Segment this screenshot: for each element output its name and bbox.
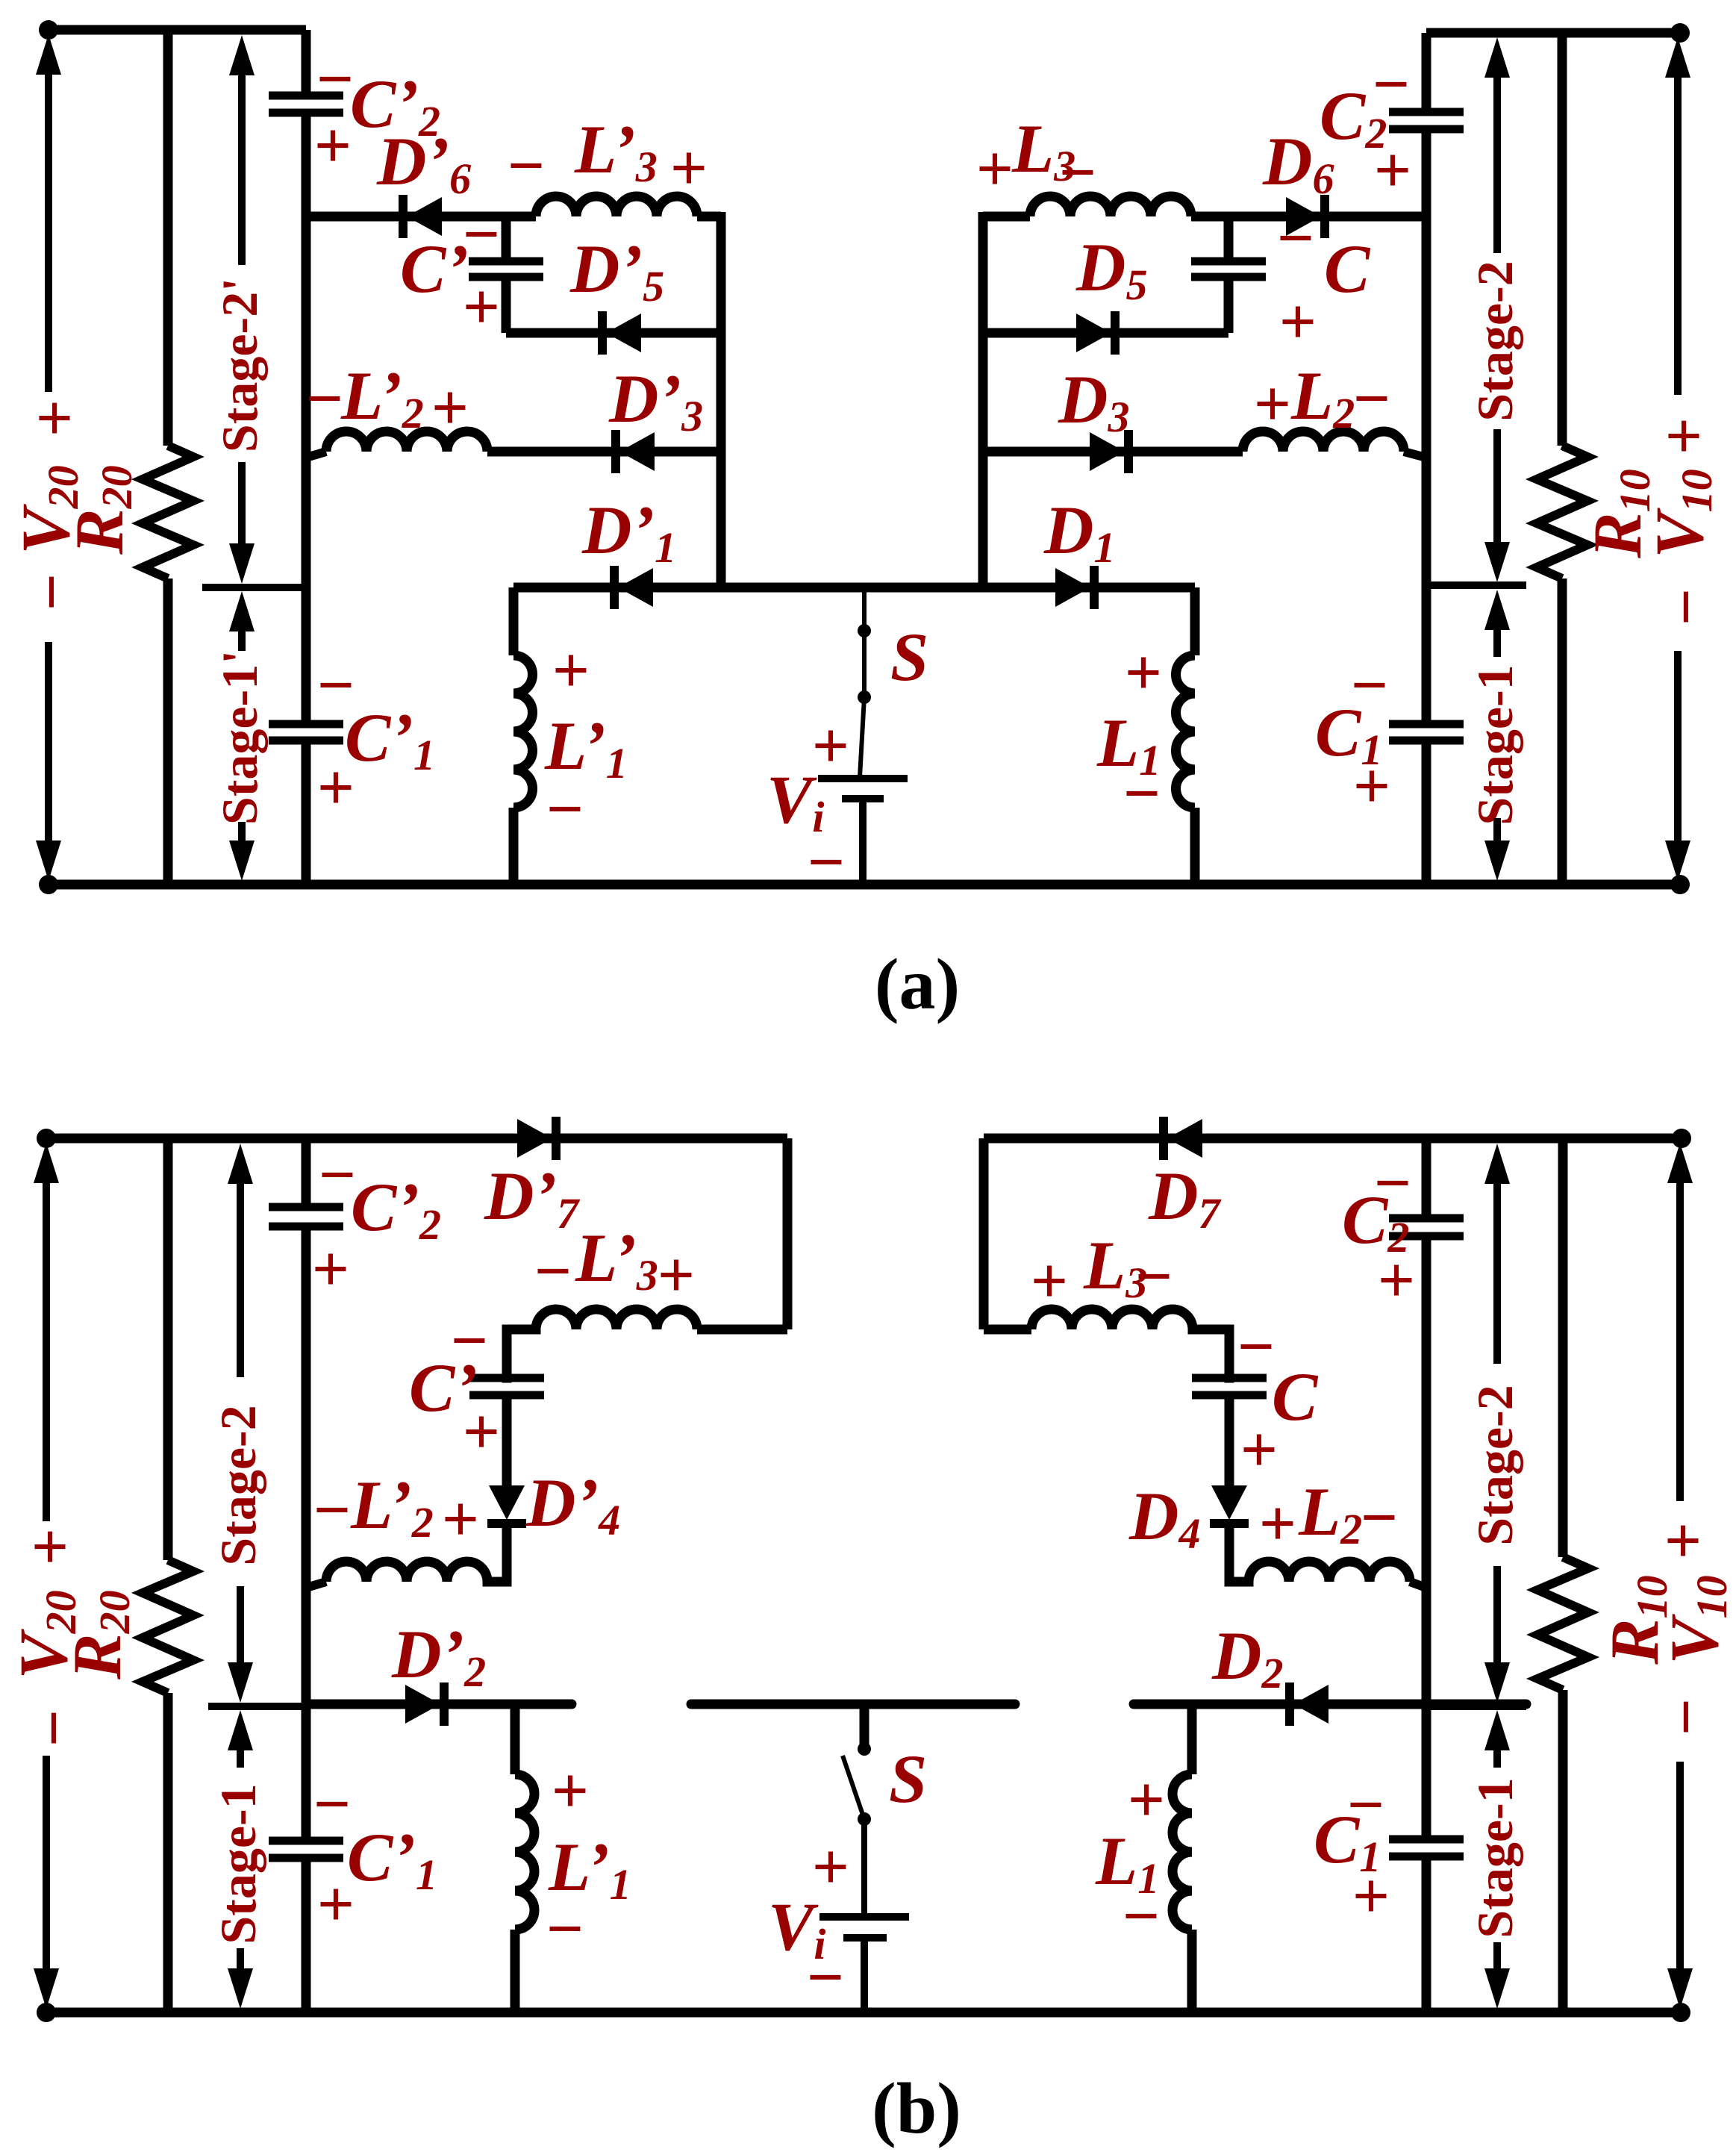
svg-text:+: + xyxy=(552,1755,589,1827)
svg-text:Stage-2: Stage-2 xyxy=(1467,1385,1523,1545)
svg-text:+: + xyxy=(552,634,590,707)
inductor L'1 (b) xyxy=(515,1704,534,2012)
svg-text:S: S xyxy=(889,1741,927,1817)
svg-text:−: − xyxy=(313,1768,351,1841)
capacitor C'1 (a) xyxy=(269,724,343,740)
tick stage boundary right (b) xyxy=(1426,1703,1526,1710)
dimension arrow Stage-1 right head bottom (b) xyxy=(1484,1968,1510,2009)
dimension arrow Stage-1 right shaft upper (b) xyxy=(1493,1749,1501,1768)
diode D'5 (a) xyxy=(602,311,641,355)
dimension arrow Stage-1' shaft upper (a) xyxy=(238,630,246,651)
diode D'4 (b) xyxy=(487,1485,526,1524)
svg-text:−: − xyxy=(306,363,343,435)
inductor L2 (a) xyxy=(1243,431,1404,452)
svg-text:+: + xyxy=(317,1868,355,1941)
svg-text:+: + xyxy=(312,1233,349,1306)
wire right output rail R10 top (b) xyxy=(1558,1138,1568,1557)
svg-text:−: − xyxy=(546,1893,584,1965)
dimension arrow Stage-2 right shaft lower (b) xyxy=(1493,1566,1501,1668)
svg-text:C: C xyxy=(1272,1359,1319,1435)
svg-text:+: + xyxy=(463,1396,500,1468)
svg-text:Stage-1: Stage-1 xyxy=(1467,664,1523,825)
wire right rail middle (a) xyxy=(1422,129,1431,724)
wire D4 to L2 (b) xyxy=(1229,1527,1249,1582)
label Stage-2 (a) xyxy=(1467,261,1523,421)
dimension arrow Stage-2 right shaft upper (b) xyxy=(1493,1181,1501,1364)
svg-text:+: + xyxy=(431,372,469,444)
tick stage boundary left (b) xyxy=(208,1703,306,1710)
svg-text:+: + xyxy=(1374,134,1411,207)
svg-text:+: + xyxy=(442,1483,479,1556)
svg-text:+: + xyxy=(1648,417,1720,455)
label Stage-2' (a) xyxy=(211,278,268,452)
svg-text:−: − xyxy=(18,1709,90,1747)
dimension arrow Stage-1 shaft upper (a) xyxy=(1493,629,1501,657)
wire left rail lower (b) xyxy=(302,1858,311,2012)
dimension arrow Stage-2 head top (a) xyxy=(1484,37,1510,78)
capacitor C' (b) xyxy=(469,1378,544,1395)
wire D3 row (a) xyxy=(983,447,1243,457)
wire inner right rail (a) xyxy=(978,212,988,587)
node bottom-left (b) xyxy=(37,2003,56,2022)
wire L'3 to rail (a) xyxy=(697,212,721,222)
wire left output rail R20 bottom (b) xyxy=(163,1693,173,2012)
resistor R20 (a) xyxy=(143,446,193,578)
svg-text:S: S xyxy=(890,619,928,695)
label Stage-1 right (b) xyxy=(1467,1777,1523,1938)
wire top rail left (b) xyxy=(46,1134,787,1144)
dimension arrow Stage-2 left head bottom (b) xyxy=(228,1662,253,1703)
dimension arrow Stage-1 left shaft upper (b) xyxy=(237,1749,244,1768)
dimension arrow Stage-2' shaft lower (a) xyxy=(238,462,246,546)
wire L2 lead (b) xyxy=(1410,1582,1426,1588)
wire L'3 riser (b) xyxy=(783,1138,793,1329)
dimension arrow Stage-2 shaft lower (a) xyxy=(1493,429,1501,546)
svg-text:+: + xyxy=(812,1831,849,1903)
battery Vi (b) xyxy=(819,1917,909,2012)
wire left rail middle (b) xyxy=(302,1226,311,1841)
svg-text:+: + xyxy=(1125,637,1162,709)
dimension arrow Stage-2 head bottom (a) xyxy=(1484,542,1510,582)
wire L3 riser (b) xyxy=(979,1138,989,1329)
dimension arrow Stage-1 left head bottom (b) xyxy=(228,1968,253,2009)
wire top-left rail (a) xyxy=(49,25,306,35)
svg-text:Stage-2': Stage-2' xyxy=(211,278,268,452)
wire D5 row (a) xyxy=(983,328,1228,338)
dimension arrow Stage-1' head top (a) xyxy=(229,591,255,631)
svg-text:−: − xyxy=(1123,1880,1160,1953)
dimension arrow Stage-1 head top (a) xyxy=(1484,590,1510,630)
resistor R10 (b) xyxy=(1537,1557,1588,1690)
wire bottom rail (b) xyxy=(46,2008,1681,2018)
dimension arrow Stage-2' head top (a) xyxy=(229,35,255,75)
svg-text:+: + xyxy=(1352,1860,1390,1933)
svg-text:+: + xyxy=(314,110,352,182)
svg-text:+: + xyxy=(1353,750,1390,823)
label Stage-2 right (b) xyxy=(1467,1385,1523,1545)
svg-text:−: − xyxy=(313,1474,351,1547)
switch S (b) xyxy=(843,1704,871,1917)
capacitor C (a) xyxy=(1191,261,1266,277)
svg-text:Stage-2: Stage-2 xyxy=(1467,261,1523,421)
svg-text:(a): (a) xyxy=(875,944,960,1025)
inductor L2 (b) xyxy=(1249,1562,1410,1582)
dimension arrow V20 head top (b) xyxy=(34,1143,59,1183)
svg-text:+: + xyxy=(463,271,500,343)
svg-text:−: − xyxy=(1059,137,1096,209)
resistor R10 (a) xyxy=(1537,446,1587,578)
svg-text:+: + xyxy=(19,399,91,437)
svg-text:Stage-1: Stage-1 xyxy=(210,1783,266,1944)
capacitor C1 (a) xyxy=(1389,724,1464,740)
dimension arrow V20 shaft upper (b) xyxy=(43,1180,50,1521)
tick stage boundary right (a) xyxy=(1426,581,1526,589)
node top-left (a) xyxy=(39,20,58,40)
wire left rail middle (a) xyxy=(302,113,311,724)
dimension arrow Stage-1 shaft lower (a) xyxy=(1493,818,1501,843)
wire right rail lower (b) xyxy=(1422,1856,1431,2012)
dimension arrow Stage-1 head bottom (a) xyxy=(1484,841,1510,881)
label V20 (a) xyxy=(7,465,87,554)
diode D'3 (a) xyxy=(616,430,655,473)
dimension arrow V10 head bottom (b) xyxy=(1667,1968,1693,2009)
svg-text:−: − xyxy=(1650,1698,1723,1735)
dimension arrow Stage-1' head bottom (a) xyxy=(229,841,255,881)
diode D'2 (b) xyxy=(405,1682,444,1726)
wire C' to D'4 (b) xyxy=(502,1395,512,1485)
wire C' stub upper (a) xyxy=(502,212,511,261)
svg-text:+: + xyxy=(658,1239,695,1312)
svg-text:−: − xyxy=(16,573,88,611)
capacitor C'1 (b) xyxy=(269,1841,343,1858)
diode D3 (a) xyxy=(1090,430,1128,473)
svg-text:+: + xyxy=(14,1528,87,1565)
label R20 (b) xyxy=(59,1590,139,1680)
wire L'3 right lead (b) xyxy=(697,1325,787,1335)
svg-text:−: − xyxy=(1353,363,1390,435)
diode D'7 (b) xyxy=(517,1117,556,1160)
inductor L'3 (a) xyxy=(536,196,697,216)
node bottom-left (a) xyxy=(39,875,58,894)
label Stage-1 (a) xyxy=(1467,664,1523,825)
resistor R20 (b) xyxy=(143,1560,193,1693)
wire L'2 lead (b) xyxy=(306,1582,326,1588)
wire D'6 row (a) xyxy=(306,212,536,222)
dimension arrow V20 head bottom (b) xyxy=(34,1968,59,2009)
wire left rail upper (b) xyxy=(302,1138,311,1207)
dimension arrow Stage-2 right head top (b) xyxy=(1484,1144,1510,1184)
node bottom-right (b) xyxy=(1671,2003,1690,2022)
wire right rail upper (b) xyxy=(1422,1138,1431,1218)
wire right rail upper (a) xyxy=(1422,33,1431,112)
capacitor C (b) xyxy=(1192,1378,1267,1395)
wire D'5 row (a) xyxy=(506,328,721,338)
wire C' stub lower (a) xyxy=(502,277,511,333)
dimension arrow V20 head bottom (a) xyxy=(36,841,61,881)
capacitor C'2 (b) xyxy=(269,1207,343,1226)
wire L3 left lead (b) xyxy=(984,1325,1031,1335)
label V10 (a) xyxy=(1641,469,1721,558)
svg-text:−: − xyxy=(807,1942,844,2014)
node bottom-right (a) xyxy=(1670,875,1690,894)
svg-text:−: − xyxy=(1650,588,1723,626)
dimension arrow Stage-2 shaft upper (a) xyxy=(1493,75,1501,253)
svg-text:−: − xyxy=(546,773,584,846)
wire right rail middle (b) xyxy=(1422,1236,1431,1839)
svg-text:−: − xyxy=(508,130,545,202)
wire right rail lower (a) xyxy=(1422,740,1431,885)
dimension arrow V20 shaft lower (a) xyxy=(45,642,52,847)
dimension arrow Stage-1 right head top (b) xyxy=(1484,1710,1510,1750)
wire D6 row (a) xyxy=(983,212,1030,222)
svg-text:Stage-1': Stage-1' xyxy=(211,650,268,825)
svg-text:+: + xyxy=(1647,1522,1720,1559)
wire L'3 left corner (b) xyxy=(507,1329,536,1378)
dimension arrow Stage-1 left head top (b) xyxy=(228,1710,253,1750)
svg-text:+: + xyxy=(1031,1245,1068,1317)
dimension arrow Stage-1 right shaft lower (b) xyxy=(1493,1942,1501,1971)
svg-text:+: + xyxy=(317,752,355,824)
svg-text:−: − xyxy=(1135,1241,1173,1313)
dimension arrow Stage-2 left shaft upper (b) xyxy=(237,1181,244,1377)
inductor L'2 (b) xyxy=(326,1562,487,1582)
dimension arrow V10 shaft upper (a) xyxy=(1674,75,1682,395)
svg-text:C: C xyxy=(1324,231,1371,307)
tick stage boundary left (a) xyxy=(202,584,306,591)
wire C to D4 (b) xyxy=(1225,1395,1234,1485)
node top-right (a) xyxy=(1670,23,1690,43)
wire D'2 row (b) xyxy=(306,1700,572,1709)
inductor L1 (a) xyxy=(1176,587,1195,885)
wire left output rail R20 top (b) xyxy=(163,1138,173,1560)
svg-text:+: + xyxy=(1254,368,1291,440)
dimension arrow Stage-2' shaft upper (a) xyxy=(238,72,246,265)
svg-text:−: − xyxy=(534,1235,572,1308)
svg-text:(b): (b) xyxy=(872,2068,961,2149)
label V20 (b) xyxy=(5,1590,85,1679)
dimension arrow Stage-2' head bottom (a) xyxy=(229,543,255,584)
label R20 (a) xyxy=(61,465,141,555)
dimension arrow V10 shaft upper (b) xyxy=(1676,1180,1684,1501)
dimension arrow V10 shaft lower (b) xyxy=(1676,1762,1684,1974)
wire C stub lower (a) xyxy=(1224,277,1234,333)
svg-text:Stage-2: Stage-2 xyxy=(210,1405,266,1565)
diode D1 (a) xyxy=(1055,566,1094,609)
svg-text:+: + xyxy=(1279,286,1317,358)
capacitor C1 (b) xyxy=(1389,1839,1464,1856)
svg-text:C’: C’ xyxy=(400,231,469,307)
wire right output rail R10 top (a) xyxy=(1558,33,1567,446)
inductor L'1 (a) xyxy=(513,587,533,885)
svg-text:+: + xyxy=(1378,1244,1415,1317)
inductor L'2 (a) xyxy=(326,431,487,452)
wire left rail lower (a) xyxy=(302,740,311,885)
dimension arrow Stage-2 right head bottom (b) xyxy=(1484,1662,1510,1703)
wire L'2 lead (a) xyxy=(306,452,326,458)
wire top rail right (b) xyxy=(984,1134,1682,1144)
svg-text:Stage-1: Stage-1 xyxy=(1467,1777,1523,1938)
wire S row (b) xyxy=(691,1700,1015,1709)
dimension arrow V20 shaft lower (b) xyxy=(43,1756,50,1974)
diode D6 (a) xyxy=(1286,195,1325,238)
label Stage-1' (a) xyxy=(211,650,268,825)
label R10 (b) xyxy=(1596,1575,1676,1665)
wire bottom rail (a) xyxy=(49,880,1680,890)
dimension arrow Stage-1 left shaft lower (b) xyxy=(237,1948,244,1971)
svg-text:−: − xyxy=(316,43,354,116)
diode D2 (b) xyxy=(1290,1682,1328,1726)
wire inner left rail (a) xyxy=(716,212,726,587)
wire C stub upper (a) xyxy=(1224,212,1234,261)
wire middle row (a) xyxy=(513,583,1195,593)
label Stage-2 left (b) xyxy=(210,1405,266,1565)
wire top-right rail (a) xyxy=(1426,28,1680,38)
svg-text:−: − xyxy=(1361,1482,1398,1554)
wire left output rail R20 top (a) xyxy=(163,30,173,446)
dimension arrow Stage-1' shaft lower (a) xyxy=(238,822,246,843)
capacitor C2 (b) xyxy=(1389,1218,1464,1236)
wire left output rail R20 bottom (a) xyxy=(163,578,173,885)
label V10 (b) xyxy=(1656,1575,1736,1664)
wire L3 right corner (b) xyxy=(1193,1329,1229,1378)
switch S (a) xyxy=(858,587,871,777)
dimension arrow Stage-2 left shaft lower (b) xyxy=(237,1586,244,1668)
diode D'1 (a) xyxy=(614,566,653,609)
inductor L3 (a) xyxy=(1030,196,1191,216)
wire right output rail R10 bottom (b) xyxy=(1558,1690,1568,2012)
svg-text:+: + xyxy=(670,132,708,205)
label R10 (a) xyxy=(1579,469,1659,558)
capacitor C'2 (a) xyxy=(269,96,343,113)
dimension arrow V20 shaft upper (a) xyxy=(45,72,52,392)
wire D'3 row (a) xyxy=(487,447,721,457)
wire D'4 to L'2 (b) xyxy=(487,1527,507,1582)
diode D'6 (a) xyxy=(403,195,442,238)
node top-right (b) xyxy=(1672,1129,1691,1148)
node top-left (b) xyxy=(37,1129,56,1148)
wire L2 lead (a) xyxy=(1404,452,1426,458)
wire left rail upper (a) xyxy=(302,30,311,96)
dimension arrow V10 head bottom (a) xyxy=(1665,841,1690,881)
svg-text:−: − xyxy=(1123,758,1161,830)
inductor L'3 (b) xyxy=(536,1309,697,1329)
dimension arrow V20 head top (a) xyxy=(36,34,61,75)
svg-text:+: + xyxy=(1240,1414,1278,1486)
svg-text:+: + xyxy=(812,710,849,782)
wire right output rail R10 bottom (a) xyxy=(1558,578,1567,885)
capacitor C2 (a) xyxy=(1389,112,1464,129)
svg-text:+: + xyxy=(976,133,1014,205)
inductor L1 (b) xyxy=(1173,1704,1192,2012)
svg-text:−: − xyxy=(1237,1311,1275,1383)
inductor L3 (b) xyxy=(1031,1309,1193,1329)
wire D6 row 2 (a) xyxy=(1191,212,1426,222)
wire D2 row (b) xyxy=(1134,1700,1526,1709)
dimension arrow Stage-2 left head top (b) xyxy=(228,1144,253,1184)
label Stage-1 left (b) xyxy=(210,1783,266,1944)
dimension arrow V10 head top (a) xyxy=(1665,37,1690,78)
dimension arrow V10 shaft lower (a) xyxy=(1674,651,1682,842)
svg-text:+: + xyxy=(1259,1488,1296,1560)
dimension arrow V10 head top (b) xyxy=(1667,1143,1693,1183)
battery Vi (a) xyxy=(818,779,908,885)
diode D4 (b) xyxy=(1210,1485,1249,1524)
diode D5 (a) xyxy=(1076,311,1115,355)
diode D7 (b) xyxy=(1164,1117,1202,1160)
capacitor C' (a) xyxy=(469,261,543,277)
